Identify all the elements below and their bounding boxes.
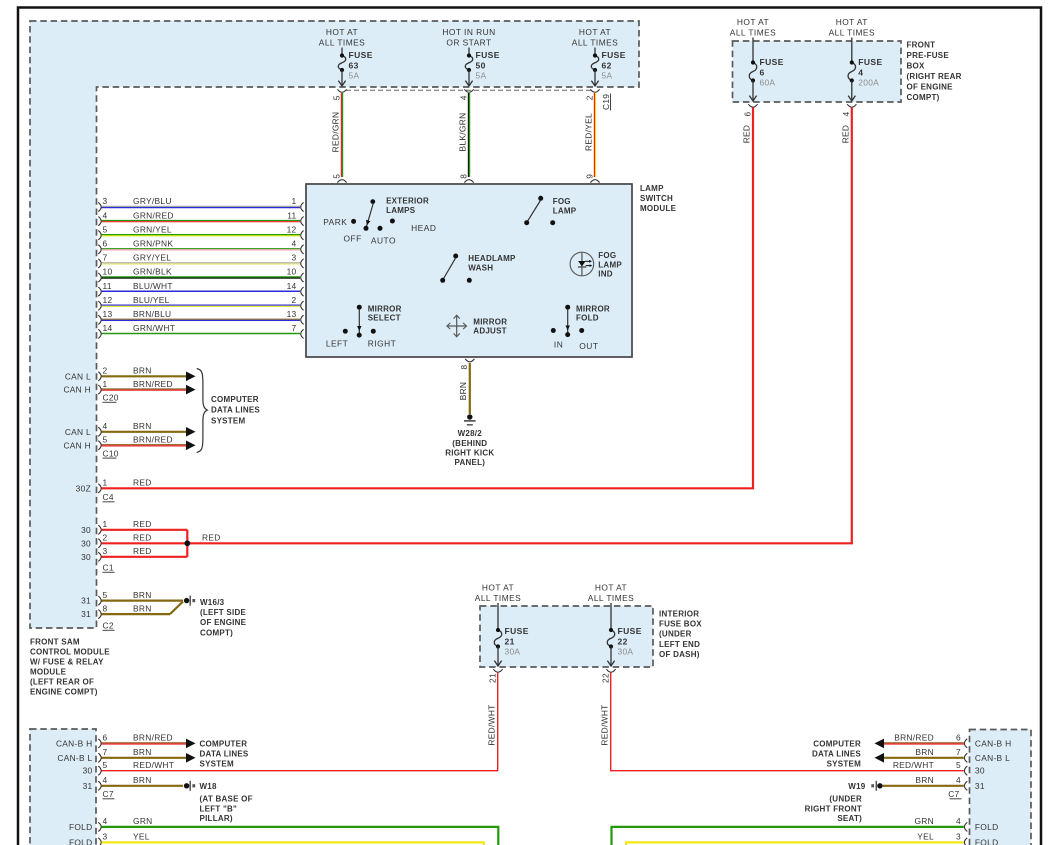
svg-text:21: 21 [505, 636, 515, 646]
svg-text:RED/WHT: RED/WHT [600, 704, 610, 745]
wire RED pin 1 30Z to pre-fuse box fuse 6 [98, 484, 101, 493]
svg-text:5A: 5A [476, 71, 487, 81]
svg-text:ENGINE COMPT): ENGINE COMPT) [30, 687, 98, 696]
svg-text:PRE-FUSE: PRE-FUSE [907, 51, 950, 60]
svg-text:30: 30 [83, 766, 93, 776]
svg-text:HOT AT: HOT AT [326, 27, 358, 37]
svg-text:13: 13 [287, 309, 297, 319]
svg-text:GRN: GRN [133, 816, 153, 826]
wire GRN/PNK pin 6 to lamp module pin 4 [98, 245, 101, 254]
switch MIRROR FOLD [565, 305, 570, 310]
brace COMPUTER DATA LINES SYSTEM [197, 369, 208, 453]
wire BRN/RED pin 1 CAN H [98, 385, 101, 394]
svg-text:30: 30 [975, 766, 985, 776]
svg-text:GRY/BLU: GRY/BLU [133, 196, 172, 206]
svg-text:1: 1 [292, 196, 297, 206]
svg-text:BRN: BRN [133, 590, 152, 600]
svg-text:HOT AT: HOT AT [836, 17, 868, 27]
svg-text:3: 3 [103, 546, 108, 556]
svg-text:BOX: BOX [907, 62, 926, 71]
svg-text:5: 5 [103, 590, 108, 600]
wire YEL pin 3 FOLD (right) [626, 842, 964, 845]
svg-text:LEFT: LEFT [326, 338, 348, 348]
fuse 62 5A [594, 48, 596, 56]
svg-text:ALL TIMES: ALL TIMES [319, 37, 365, 47]
svg-text:ALL TIMES: ALL TIMES [572, 37, 618, 47]
svg-text:4: 4 [458, 95, 468, 100]
svg-text:2: 2 [103, 366, 108, 376]
svg-text:HOT AT: HOT AT [595, 583, 627, 593]
svg-text:LEFT "B": LEFT "B" [200, 804, 238, 813]
svg-text:GRY/YEL: GRY/YEL [133, 253, 171, 263]
svg-text:7: 7 [103, 747, 108, 757]
svg-text:W16/3: W16/3 [200, 598, 225, 607]
wire RED pin 1 (30) [98, 525, 101, 534]
svg-text:FUSE: FUSE [618, 626, 642, 636]
svg-text:5: 5 [103, 760, 108, 770]
svg-text:10: 10 [103, 267, 113, 277]
module FRONT SAM CONTROL MODULE (L-shaped dashed box) [30, 21, 639, 628]
svg-text:HEADLAMP: HEADLAMP [468, 254, 516, 263]
svg-text:6: 6 [742, 112, 752, 117]
svg-text:30: 30 [81, 538, 91, 548]
wire BRN to ground [469, 363, 471, 414]
svg-text:ALL TIMES: ALL TIMES [588, 593, 634, 603]
svg-text:FUSE: FUSE [476, 50, 500, 60]
svg-text:12: 12 [103, 295, 113, 305]
wire GRN/RED pin 4 to lamp module pin 11 [98, 217, 101, 226]
switch MIRROR SELECT [357, 305, 362, 310]
svg-text:FOLD: FOLD [975, 822, 999, 832]
svg-text:4: 4 [103, 816, 108, 826]
svg-text:31: 31 [83, 781, 93, 791]
wire BRN/RED pin 6 CAN-B H (right) [875, 739, 885, 749]
svg-text:W28/2: W28/2 [458, 429, 483, 438]
svg-text:FUSE: FUSE [602, 50, 626, 60]
wire BRN pin 8 (31) diagonal to splice [98, 610, 101, 619]
junction of 30 wires [186, 530, 188, 557]
svg-text:MIRROR: MIRROR [473, 317, 507, 326]
svg-text:GRN: GRN [914, 816, 934, 826]
svg-text:ADJUST: ADJUST [473, 327, 507, 336]
connector pin 2 below fuse 62 [590, 89, 599, 92]
svg-text:FOLD: FOLD [975, 837, 999, 845]
svg-text:8: 8 [459, 365, 469, 370]
svg-text:W19: W19 [848, 782, 866, 791]
svg-text:FOLD: FOLD [69, 822, 93, 832]
wire BLU/WHT pin 11 to lamp module pin 14 [98, 287, 101, 296]
wire BLK/GRN vertical [467, 93, 469, 177]
svg-text:FUSE: FUSE [858, 57, 882, 67]
svg-text:EXTERIOR: EXTERIOR [386, 196, 429, 205]
svg-text:ALL TIMES: ALL TIMES [730, 28, 776, 38]
svg-text:RIGHT KICK: RIGHT KICK [445, 449, 494, 458]
svg-text:FOG: FOG [553, 197, 571, 206]
module U1 LAMP SWITCH MODULE box [306, 184, 632, 357]
svg-text:SYSTEM: SYSTEM [200, 759, 234, 768]
fuse 21 30A [497, 603, 499, 630]
svg-text:6: 6 [103, 239, 108, 249]
wire RED pin 3 (30) [98, 552, 101, 561]
switch EXTERIOR LAMPS [370, 199, 375, 204]
node C19 connector strip (dashed) [346, 89, 591, 91]
wire BRN pin 7 CAN-B L (right) [875, 753, 885, 763]
svg-text:31: 31 [975, 781, 985, 791]
svg-text:OUT: OUT [579, 341, 598, 351]
svg-text:BRN: BRN [915, 747, 934, 757]
switch HEADLAMP WASH [453, 254, 458, 259]
svg-text:MIRROR: MIRROR [368, 304, 402, 313]
svg-text:C10: C10 [103, 448, 119, 458]
svg-text:5: 5 [103, 224, 108, 234]
wire GRY/YEL pin 7 to lamp module pin 3 [98, 259, 101, 268]
svg-text:5A: 5A [349, 71, 360, 81]
splice W16/3 [184, 598, 189, 603]
svg-text:FOLD: FOLD [576, 314, 599, 323]
svg-text:OF DASH): OF DASH) [659, 650, 700, 659]
svg-text:CAN-B H: CAN-B H [56, 738, 93, 748]
svg-text:RED: RED [133, 533, 152, 543]
wire GRN/YEL pin 5 to lamp module pin 12 [98, 231, 101, 240]
svg-text:BRN: BRN [915, 775, 934, 785]
svg-text:COMPUTER: COMPUTER [211, 395, 259, 404]
svg-text:PILLAR): PILLAR) [200, 814, 233, 823]
svg-text:RIGHT FRONT: RIGHT FRONT [805, 804, 862, 813]
wire GRN/BLK pin 10 to lamp module pin 10 [98, 273, 101, 282]
svg-text:3: 3 [103, 196, 108, 206]
module bottom-right control module (dashed, cut off) [970, 730, 1032, 845]
svg-text:(AT BASE OF: (AT BASE OF [200, 795, 253, 804]
connector pin 5 below fuse 63 [337, 89, 346, 92]
svg-text:(LEFT SIDE: (LEFT SIDE [200, 608, 246, 617]
svg-text:SELECT: SELECT [368, 314, 401, 323]
wire RED pin 2 (30) junction to fuse 4 [98, 539, 101, 548]
svg-text:1: 1 [103, 519, 108, 529]
svg-text:C7: C7 [103, 789, 114, 799]
svg-text:HOT AT: HOT AT [482, 583, 514, 593]
module INTERIOR FUSE BOX (dashed) [480, 606, 653, 667]
svg-text:30: 30 [81, 525, 91, 535]
svg-text:C4: C4 [103, 492, 114, 502]
svg-text:LAMP: LAMP [598, 260, 622, 269]
fuse 22 30A [610, 603, 612, 630]
svg-text:CAN-B L: CAN-B L [975, 753, 1010, 763]
svg-text:WASH: WASH [468, 263, 493, 272]
svg-text:FUSE: FUSE [349, 50, 373, 60]
svg-text:RED: RED [133, 478, 152, 488]
svg-text:BRN/RED: BRN/RED [133, 435, 173, 445]
svg-text:30Z: 30Z [76, 483, 91, 493]
svg-text:7: 7 [103, 253, 108, 263]
connector pin 4 below fuse 4 [847, 104, 856, 107]
svg-text:FUSE BOX: FUSE BOX [659, 620, 702, 629]
svg-text:5A: 5A [602, 71, 613, 81]
svg-text:8: 8 [103, 603, 108, 613]
fuse 6 60A [752, 38, 754, 63]
connector pin 22 below fuse 22 [606, 669, 615, 672]
svg-text:RED: RED [202, 533, 221, 543]
svg-text:BRN: BRN [133, 366, 152, 376]
svg-text:LAMPS: LAMPS [386, 206, 416, 215]
svg-text:COMPT): COMPT) [200, 628, 233, 637]
svg-text:SWITCH: SWITCH [640, 194, 673, 203]
svg-text:BRN: BRN [133, 603, 152, 613]
svg-text:4: 4 [841, 112, 851, 117]
svg-text:HOT AT: HOT AT [737, 17, 769, 27]
svg-text:30A: 30A [618, 647, 634, 657]
svg-text:FRONT: FRONT [907, 41, 936, 50]
svg-text:BLU/WHT: BLU/WHT [133, 281, 173, 291]
svg-text:GRN/WHT: GRN/WHT [133, 323, 175, 333]
switch FOG LAMP [538, 196, 543, 201]
svg-text:6: 6 [760, 67, 765, 77]
svg-text:RED: RED [133, 519, 152, 529]
svg-text:BRN/RED: BRN/RED [894, 733, 934, 743]
wire BLU/YEL pin 12 to lamp module pin 2 [98, 301, 101, 310]
svg-text:COMPT): COMPT) [907, 93, 940, 102]
svg-text:1: 1 [103, 379, 108, 389]
svg-text:RED/WHT: RED/WHT [133, 760, 174, 770]
svg-text:RED/WHT: RED/WHT [893, 760, 934, 770]
svg-text:ALL TIMES: ALL TIMES [475, 593, 521, 603]
wire BRN pin 5 (31) to splice W16/3 [98, 596, 101, 605]
svg-text:LAMP: LAMP [640, 184, 664, 193]
svg-text:13: 13 [103, 309, 113, 319]
svg-text:4: 4 [103, 210, 108, 220]
wire RED/WHT from fuse 21 down-left to bottom-left module pin 5 [102, 673, 498, 771]
pin 5 30 RED/WHT row (right) [964, 766, 967, 775]
svg-text:COMPUTER: COMPUTER [200, 740, 248, 749]
svg-text:4: 4 [292, 239, 297, 249]
svg-text:31: 31 [81, 596, 91, 606]
svg-text:DATA LINES: DATA LINES [200, 750, 249, 759]
svg-text:CAN H: CAN H [63, 440, 91, 450]
wire BRN/RED pin 5 CAN H [98, 441, 101, 450]
connector pin 8 at lamp module bottom [465, 359, 474, 362]
svg-text:50: 50 [476, 60, 486, 70]
svg-text:RED: RED [133, 546, 152, 556]
svg-text:GRN/YEL: GRN/YEL [133, 224, 172, 234]
svg-text:GRN/BLK: GRN/BLK [133, 267, 172, 277]
svg-text:MIRROR: MIRROR [576, 304, 610, 313]
svg-text:AUTO: AUTO [371, 235, 396, 245]
svg-text:CAN-B H: CAN-B H [975, 738, 1012, 748]
wire GRN/WHT pin 14 to lamp module pin 7 [98, 329, 101, 338]
svg-text:BRN: BRN [133, 421, 152, 431]
svg-text:4: 4 [956, 775, 961, 785]
svg-text:CAN L: CAN L [65, 427, 91, 437]
svg-text:IND: IND [598, 270, 613, 279]
svg-text:1: 1 [103, 478, 108, 488]
svg-text:DATA LINES: DATA LINES [211, 406, 260, 415]
wire RED/WHT from fuse 22 down-right to bottom-right module pin 5 [611, 673, 964, 771]
svg-text:2: 2 [584, 95, 594, 100]
svg-text:RED/WHT: RED/WHT [487, 704, 497, 745]
svg-text:2: 2 [292, 295, 297, 305]
wire BRN pin 4 (31) from splice W19 [877, 783, 882, 788]
svg-text:CAN-B L: CAN-B L [57, 753, 92, 763]
module bottom-left control module (dashed, cut off) [30, 729, 96, 845]
svg-text:HOT AT: HOT AT [579, 27, 611, 37]
svg-text:YEL: YEL [917, 832, 934, 842]
svg-text:14: 14 [103, 323, 113, 333]
wire BRN pin 4 (31) to splice W18 [98, 781, 101, 790]
svg-text:62: 62 [602, 60, 612, 70]
svg-text:FRONT SAM: FRONT SAM [30, 637, 80, 646]
svg-text:30A: 30A [505, 647, 521, 657]
svg-text:C2: C2 [103, 621, 114, 631]
svg-text:14: 14 [287, 281, 297, 291]
svg-text:C19: C19 [601, 94, 611, 110]
svg-text:GRN/PNK: GRN/PNK [133, 239, 173, 249]
connector pin 21 below fuse 21 [493, 669, 502, 672]
svg-text:4: 4 [956, 816, 961, 826]
svg-text:SYSTEM: SYSTEM [211, 416, 245, 425]
svg-text:BLK/GRN: BLK/GRN [458, 113, 468, 152]
svg-text:2: 2 [103, 533, 108, 543]
svg-text:INTERIOR: INTERIOR [659, 610, 699, 619]
svg-text:C1: C1 [103, 563, 114, 573]
svg-text:CONTROL MODULE: CONTROL MODULE [30, 647, 110, 656]
svg-text:22: 22 [618, 636, 628, 646]
svg-text:HEAD: HEAD [411, 223, 436, 233]
svg-text:OFF: OFF [344, 233, 362, 243]
svg-text:RED: RED [841, 125, 851, 144]
svg-text:FOG: FOG [598, 251, 616, 260]
svg-text:CAN L: CAN L [65, 371, 91, 381]
svg-text:3: 3 [956, 832, 961, 842]
indicator FOG LAMP IND (LED in circle) [570, 252, 594, 276]
fuse 50 5A [468, 48, 470, 56]
svg-text:11: 11 [287, 210, 296, 220]
pin 5 30 RED/WHT row [98, 766, 101, 775]
svg-text:C20: C20 [103, 393, 119, 403]
svg-text:7: 7 [292, 323, 297, 333]
svg-text:BRN: BRN [133, 747, 152, 757]
svg-text:YEL: YEL [133, 832, 150, 842]
svg-text:21: 21 [487, 673, 497, 683]
svg-text:OR START: OR START [446, 37, 491, 47]
svg-text:9: 9 [584, 174, 594, 179]
svg-text:RED/GRN: RED/GRN [331, 112, 341, 153]
svg-text:COMPUTER: COMPUTER [813, 740, 861, 749]
svg-text:7: 7 [956, 747, 961, 757]
wire YEL pin 3 FOLD [98, 838, 101, 845]
svg-text:6: 6 [956, 733, 961, 743]
svg-text:(BEHIND: (BEHIND [452, 439, 487, 448]
svg-text:PANEL): PANEL) [454, 458, 485, 467]
svg-text:4: 4 [103, 775, 108, 785]
switch MIRROR ADJUST (4-way arrows) [448, 325, 466, 327]
svg-text:BLU/YEL: BLU/YEL [133, 295, 170, 305]
connector pin 4 below fuse 50 [464, 89, 473, 92]
svg-text:RED/YEL: RED/YEL [584, 113, 594, 151]
svg-text:BRN/RED: BRN/RED [133, 379, 173, 389]
wire BRN pin 7 CAN-B L [98, 753, 101, 762]
svg-text:GRN/RED: GRN/RED [133, 210, 174, 220]
svg-text:200A: 200A [858, 78, 879, 88]
svg-text:(UNDER: (UNDER [829, 795, 862, 804]
svg-text:6: 6 [103, 733, 108, 743]
ground W28/2 [467, 414, 472, 419]
svg-text:5: 5 [956, 760, 961, 770]
svg-text:63: 63 [349, 60, 359, 70]
svg-text:W/ FUSE & RELAY: W/ FUSE & RELAY [30, 657, 104, 666]
svg-text:CAN H: CAN H [63, 385, 91, 395]
wire GRN pin 4 FOLD [98, 822, 101, 831]
fuse 63 5A [341, 48, 343, 56]
svg-text:C7: C7 [948, 789, 959, 799]
svg-text:FUSE: FUSE [505, 626, 529, 636]
svg-text:3: 3 [292, 253, 297, 263]
svg-text:22: 22 [600, 673, 610, 683]
svg-text:OF ENGINE: OF ENGINE [907, 83, 954, 92]
connector pin 6 below fuse 6 [748, 104, 757, 107]
svg-text:5: 5 [331, 174, 341, 179]
svg-text:LEFT END: LEFT END [659, 640, 700, 649]
svg-text:LAMP: LAMP [553, 206, 577, 215]
wire BRN/BLU pin 13 to lamp module pin 13 [98, 315, 101, 324]
svg-text:12: 12 [287, 224, 297, 234]
wire GRN pin 4 FOLD (right) [612, 827, 964, 845]
svg-text:BRN/BLU: BRN/BLU [133, 309, 171, 319]
svg-text:SYSTEM: SYSTEM [827, 759, 861, 768]
svg-text:10: 10 [287, 267, 297, 277]
svg-text:(LEFT REAR OF: (LEFT REAR OF [30, 677, 94, 686]
wire RED/YEL vertical [593, 93, 595, 177]
svg-text:31: 31 [81, 609, 91, 619]
svg-text:MODULE: MODULE [30, 667, 67, 676]
svg-text:DATA LINES: DATA LINES [812, 750, 861, 759]
svg-text:11: 11 [103, 281, 112, 291]
fuse 4 200A [851, 38, 853, 63]
svg-text:W18: W18 [200, 782, 218, 791]
svg-text:SEAT): SEAT) [837, 814, 862, 823]
svg-text:60A: 60A [760, 78, 776, 88]
svg-text:BRN/RED: BRN/RED [133, 733, 173, 743]
svg-text:(RIGHT REAR: (RIGHT REAR [907, 72, 962, 81]
svg-text:5: 5 [331, 95, 341, 100]
module FRONT PRE-FUSE BOX (dashed) [733, 41, 902, 102]
svg-text:(UNDER: (UNDER [659, 630, 692, 639]
svg-text:PARK: PARK [323, 217, 347, 227]
wire BRN/RED pin 6 CAN-B H [98, 739, 101, 748]
svg-text:4: 4 [103, 421, 108, 431]
svg-text:IN: IN [554, 340, 563, 350]
svg-text:4: 4 [858, 67, 863, 77]
svg-text:HOT IN RUN: HOT IN RUN [442, 27, 495, 37]
svg-text:OF ENGINE: OF ENGINE [200, 618, 247, 627]
wire GRY/BLU pin 3 to lamp module pin 1 [98, 202, 101, 211]
svg-text:BRN: BRN [458, 382, 468, 401]
svg-text:RIGHT: RIGHT [368, 338, 397, 348]
wire RED/GRN vertical [340, 93, 342, 177]
svg-text:MODULE: MODULE [640, 204, 677, 213]
svg-text:ALL TIMES: ALL TIMES [829, 28, 875, 38]
svg-text:5: 5 [103, 435, 108, 445]
svg-text:RED: RED [742, 125, 752, 144]
svg-text:FOLD: FOLD [69, 837, 93, 845]
svg-text:8: 8 [458, 174, 468, 179]
svg-text:30: 30 [81, 552, 91, 562]
svg-text:3: 3 [103, 832, 108, 842]
svg-text:BRN: BRN [133, 775, 152, 785]
wire BRN pin 2 CAN L [98, 372, 101, 381]
wire BRN pin 4 CAN L [98, 427, 101, 436]
svg-text:FUSE: FUSE [760, 57, 784, 67]
